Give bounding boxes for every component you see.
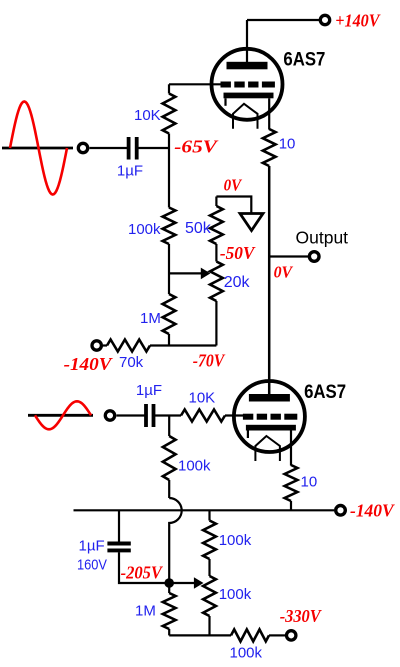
svg-text:0V: 0V	[224, 175, 243, 194]
triode V1 6AS7 (upper)	[212, 49, 283, 130]
terminal -140V (upper)	[92, 341, 101, 350]
wire C2 to node	[155, 414, 181, 416]
svg-text:1M: 1M	[135, 603, 156, 620]
svg-text:100k: 100k	[219, 532, 252, 549]
input terminal (lower)	[105, 411, 114, 420]
wire bottom rail	[169, 634, 231, 636]
svg-text:6AS7: 6AS7	[304, 382, 346, 403]
plate wire V1 to B+	[246, 20, 248, 62]
resistor R13 1M (lower)	[163, 583, 176, 635]
svg-text:0V: 0V	[274, 262, 294, 281]
svg-text:100k: 100k	[178, 458, 211, 475]
terminal -140V (mid)	[336, 506, 346, 516]
resistor R1 10K	[163, 84, 176, 148]
svg-text:1µF: 1µF	[136, 382, 162, 399]
wire ground branch	[216, 197, 251, 214]
terminal +140V	[320, 15, 329, 24]
svg-text:1M: 1M	[140, 310, 161, 327]
resistor R2 10	[263, 129, 276, 166]
wire input to C2	[117, 414, 145, 416]
resistor R7 70k	[103, 340, 150, 352]
svg-text:1µF: 1µF	[117, 163, 143, 180]
svg-text:-65V: -65V	[174, 137, 219, 157]
resistor R9 100k	[163, 416, 176, 499]
svg-text:-140V: -140V	[350, 501, 396, 521]
svg-text:10K: 10K	[134, 107, 161, 124]
terminal -330V	[287, 631, 296, 640]
resistor R10 10 (lower)	[285, 465, 298, 510]
svg-text:-330V: -330V	[280, 606, 323, 626]
resistor R3 50k	[210, 197, 223, 262]
svg-text:100k: 100k	[128, 221, 161, 238]
input signal waveform (lower)	[28, 401, 93, 429]
triode V2 6AS7 (lower)	[234, 381, 305, 466]
resistor R14 100k (bottom)	[231, 629, 285, 641]
svg-text:-50V: -50V	[220, 243, 256, 263]
input signal waveform (upper)	[2, 102, 73, 195]
terminal Output	[309, 252, 319, 262]
input terminal (upper)	[78, 143, 87, 152]
potentiometer R4 20k	[210, 262, 223, 346]
wire bottom rail (upper)	[150, 344, 216, 346]
svg-text:10: 10	[301, 474, 318, 491]
svg-text:100k: 100k	[230, 645, 263, 662]
wire input to C1	[90, 147, 128, 149]
capacitor C1 1uF	[129, 137, 137, 160]
svg-text:100k: 100k	[219, 586, 252, 603]
svg-text:-70V: -70V	[193, 351, 226, 371]
junction node -205V	[164, 578, 174, 588]
wire mid rail -140V	[74, 509, 335, 511]
ground symbol	[240, 214, 263, 231]
svg-text:1µF: 1µF	[79, 538, 105, 555]
wire output line	[268, 166, 271, 394]
wire hop over rail	[169, 498, 182, 583]
svg-text:20k: 20k	[224, 274, 251, 291]
capacitor C3 1uF 160V	[107, 510, 165, 583]
potentiometer R12 100k	[203, 576, 216, 635]
resistor R6 1M	[163, 294, 176, 346]
svg-text:10: 10	[279, 136, 296, 153]
capacitor C2 1uF	[146, 404, 154, 427]
svg-text:50k: 50k	[185, 220, 212, 237]
resistor R8 10K (lower)	[181, 410, 243, 422]
wiper arrow R12	[169, 577, 203, 589]
svg-text:160V: 160V	[77, 557, 107, 574]
svg-text:-205V: -205V	[121, 562, 164, 582]
wiper arrow R4	[169, 268, 210, 280]
wire C1 to node -65V	[139, 147, 170, 149]
resistor R5 100k	[163, 148, 176, 294]
svg-text:6AS7: 6AS7	[283, 49, 325, 70]
svg-text:-140V: -140V	[64, 354, 114, 374]
wire grid V1	[169, 83, 221, 85]
wire B+ rail	[247, 19, 320, 21]
svg-text:Output: Output	[296, 228, 349, 248]
svg-text:70k: 70k	[119, 354, 144, 371]
svg-text:10K: 10K	[189, 390, 216, 407]
wire output tap	[269, 255, 308, 257]
svg-text:+140V: +140V	[335, 11, 381, 31]
resistor R11 100k	[203, 510, 216, 576]
